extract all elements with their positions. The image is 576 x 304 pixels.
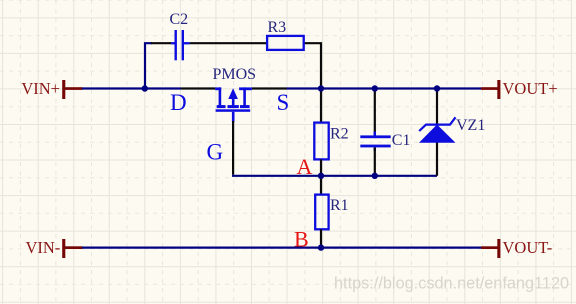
- wire top bus black D segment: [181, 87, 215, 89]
- junction J4: [434, 85, 440, 91]
- junction J1: [142, 85, 148, 91]
- junction C1 bottom: [372, 173, 378, 179]
- svg-text:A: A: [297, 154, 313, 179]
- capacitor C2: [170, 11, 190, 60]
- junction J3: [372, 85, 378, 91]
- junction A: [318, 173, 324, 179]
- wire top bus navy left: [82, 87, 181, 89]
- svg-text:B: B: [294, 227, 309, 252]
- resistor R3: [267, 19, 304, 50]
- svg-text:R1: R1: [330, 197, 349, 214]
- label D: [170, 90, 187, 115]
- svg-text:https://blog.csdn.net/enfang11: https://blog.csdn.net/enfang1120: [334, 275, 569, 293]
- wire top bus black S segment: [252, 87, 287, 89]
- svg-text:VZ1: VZ1: [456, 117, 485, 134]
- wire R2 bottom black: [320, 159, 322, 175]
- svg-text:C2: C2: [170, 11, 189, 28]
- port VIN+: [21, 79, 82, 99]
- svg-text:D: D: [170, 90, 187, 115]
- wire C1 bottom black: [374, 147, 376, 175]
- port VOUT+: [481, 79, 558, 99]
- wire riser C2 branch: [145, 43, 152, 88]
- resistor R1: [315, 195, 348, 230]
- resistor R2: [314, 123, 348, 160]
- svg-text:VOUT+: VOUT+: [503, 79, 558, 98]
- capacitor C1: [360, 132, 410, 151]
- junction B: [318, 244, 324, 250]
- diode VZ1 zener: [419, 117, 485, 143]
- svg-text:R2: R2: [330, 126, 349, 143]
- junction J2: [318, 85, 324, 91]
- port VIN-: [25, 238, 82, 258]
- label G: [207, 140, 224, 165]
- wire C2 to R3 black: [190, 42, 268, 44]
- wire bottom bus navy: [82, 247, 481, 249]
- svg-text:VIN+: VIN+: [21, 79, 60, 98]
- node B label: [294, 227, 309, 252]
- svg-text:G: G: [207, 140, 224, 165]
- node A label: [297, 154, 313, 179]
- label S: [277, 90, 290, 115]
- wire R1 bottom black: [320, 229, 322, 247]
- wire top bus navy right: [287, 87, 482, 89]
- svg-text:VOUT-: VOUT-: [503, 238, 553, 257]
- wire R2 top black: [320, 89, 322, 123]
- svg-text:S: S: [277, 90, 290, 115]
- svg-text:VIN-: VIN-: [25, 238, 60, 257]
- wire C2 left black: [151, 42, 171, 44]
- wire gate down: [232, 121, 234, 175]
- svg-text:R3: R3: [268, 19, 287, 36]
- wire VZ1 black vertical: [436, 89, 438, 176]
- wire gate to A navy: [232, 175, 437, 177]
- wire R1 top black: [320, 176, 322, 195]
- svg-text:C1: C1: [392, 132, 411, 149]
- wire C1 top black: [374, 89, 376, 136]
- wire R3 right corner down: [304, 43, 321, 88]
- port VOUT-: [481, 238, 552, 258]
- svg-text:PMOS: PMOS: [213, 66, 257, 83]
- transistor Q1 PMOS: [213, 66, 257, 122]
